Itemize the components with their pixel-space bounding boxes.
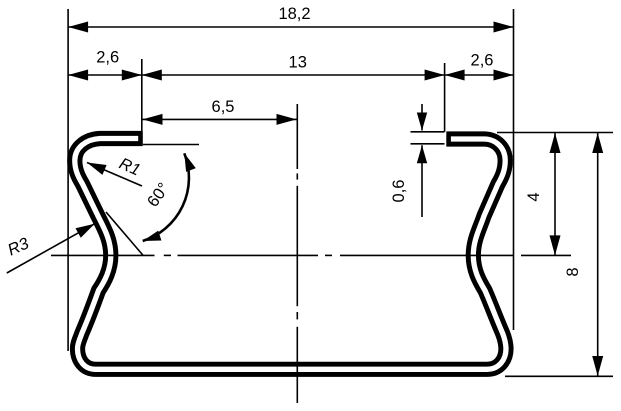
svg-text:0,6: 0,6 (390, 180, 408, 203)
wire: left extension line x=68 (67, 9, 69, 351)
dimension R3 leader (7, 224, 95, 273)
svg-text:2,6: 2,6 (471, 52, 494, 70)
dimension R1 leader (87, 163, 142, 187)
svg-text:13: 13 (289, 54, 307, 72)
dimension 8 (597, 133, 599, 376)
wire: top extension line y=132.5 (497, 132, 613, 134)
node: horizontal centerline (dash-dot) (51, 254, 155, 256)
node: left lip end cap (138, 131, 143, 146)
dimension 18,2 top (68, 26, 513, 28)
wire: inner white core of sheet (75, 139, 506, 370)
dimension 0,6 (421, 104, 423, 131)
wire: extension line x=444.6 (444, 63, 446, 132)
dimension 6,5 (143, 118, 297, 120)
dimension 60 degree arc (143, 153, 189, 241)
wire: horizontal construction line y=144.5 (143, 144, 199, 146)
svg-text:2,6: 2,6 (96, 49, 119, 67)
wire: bottom extension line y=376 (505, 375, 613, 377)
wire: right extension line x=513.5 (513, 9, 515, 330)
wire: extension line x=141.8 (141, 59, 143, 132)
dimension 2,6 left (68, 74, 142, 76)
wire: 0,6 extension line top (411, 131, 445, 133)
dimension 4 (554, 133, 556, 255)
dimension 13 (142, 74, 445, 76)
dimension 2,6 right (445, 74, 514, 76)
svg-text:8: 8 (564, 267, 582, 276)
node: vertical centerline (dash-dot) (296, 104, 298, 169)
node: right lip end cap (446, 132, 451, 147)
wire: 0,6 extension line bottom (411, 143, 445, 145)
svg-text:6,5: 6,5 (212, 98, 235, 116)
svg-text:4: 4 (525, 192, 543, 201)
svg-text:18,2: 18,2 (278, 5, 310, 23)
wire: 60deg slanted construction line (106, 212, 143, 255)
profile outline (hat rail cross-section, double line sheet) (75, 139, 506, 370)
